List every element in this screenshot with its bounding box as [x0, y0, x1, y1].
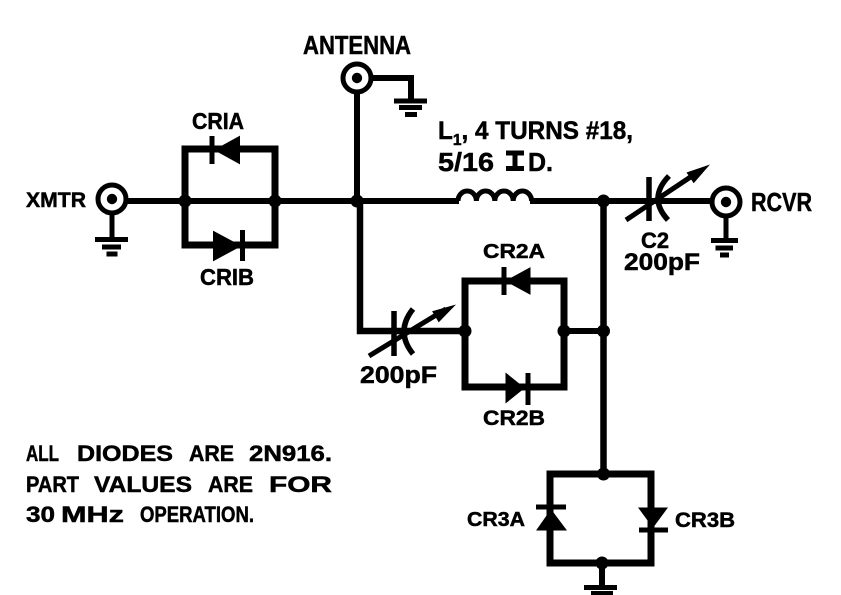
- svg-text:D.: D.: [528, 147, 553, 177]
- svg-text:CR3B: CR3B: [675, 509, 735, 532]
- svg-text:30: 30: [26, 502, 55, 527]
- svg-text:CR2B: CR2B: [483, 407, 545, 430]
- svg-text:FOR: FOR: [269, 472, 332, 497]
- svg-text:ALL: ALL: [26, 441, 59, 466]
- svg-text:CRIB: CRIB: [200, 264, 254, 290]
- svg-text:VALUES: VALUES: [94, 472, 192, 497]
- svg-text:ARE: ARE: [189, 441, 234, 466]
- svg-text:RCVR: RCVR: [751, 187, 812, 217]
- svg-text:200pF: 200pF: [360, 362, 437, 389]
- svg-text:CRIA: CRIA: [192, 108, 244, 134]
- svg-text:PART: PART: [26, 472, 80, 497]
- svg-text:2N916.: 2N916.: [249, 441, 332, 466]
- svg-text:DIODES: DIODES: [77, 441, 173, 466]
- svg-text:200pF: 200pF: [624, 249, 700, 276]
- svg-text:MHz: MHz: [61, 502, 124, 527]
- svg-text:ANTENNA: ANTENNA: [303, 30, 411, 60]
- svg-text:CR3A: CR3A: [467, 509, 525, 531]
- svg-text:5/16: 5/16: [438, 147, 494, 177]
- svg-text:L1, 4 TURNS #18,: L1, 4 TURNS #18,: [438, 117, 633, 149]
- svg-text:ARE: ARE: [208, 472, 253, 497]
- svg-text:CR2A: CR2A: [483, 241, 545, 263]
- svg-text:OPERATION.: OPERATION.: [140, 502, 254, 527]
- svg-text:XMTR: XMTR: [26, 189, 86, 212]
